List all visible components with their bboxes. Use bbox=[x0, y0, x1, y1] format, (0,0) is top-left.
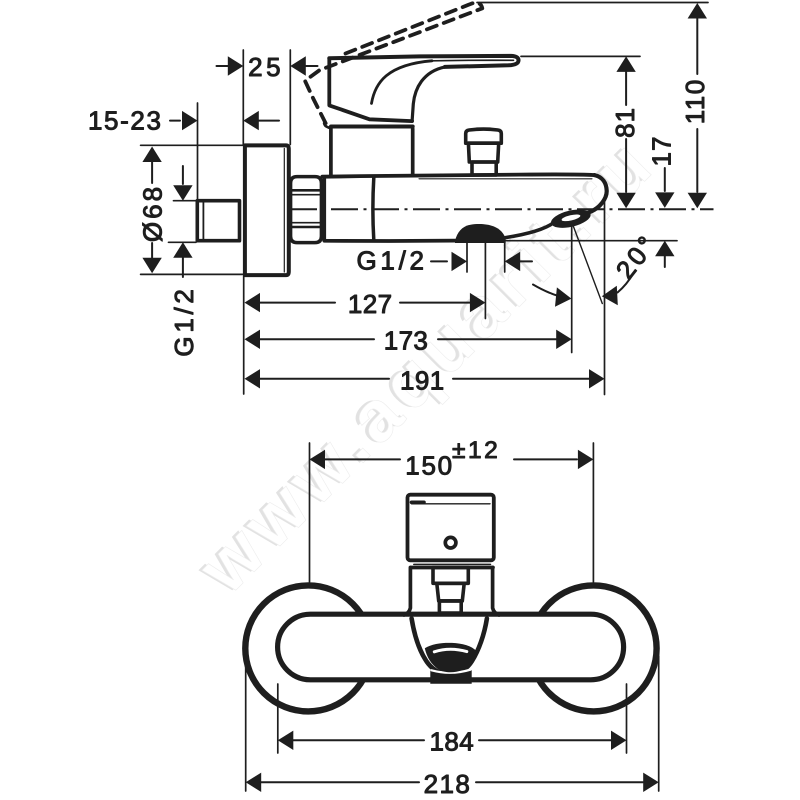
191 extension bbox=[604, 200, 606, 395]
spout mouth (filled) bbox=[425, 643, 477, 672]
G1/2 nipple stubs bbox=[174, 200, 197, 202]
nut groove lines bbox=[292, 189, 321, 192]
deck thin shadow line bbox=[419, 178, 592, 180]
extension line: escutcheon front upper bbox=[289, 50, 291, 145]
svg-text:150: 150 bbox=[405, 451, 453, 481]
dim 184 bbox=[278, 731, 294, 750]
svg-text:G1/2: G1/2 bbox=[357, 246, 428, 276]
Ø68 extension lines bbox=[141, 144, 243, 146]
spout nose outer curve bbox=[589, 175, 607, 212]
handle grip right edge / lever under-curve bbox=[412, 67, 445, 121]
svg-text:81: 81 bbox=[610, 107, 640, 138]
union nut with grooves bbox=[291, 177, 322, 243]
handle front bbox=[408, 495, 494, 561]
spout deck top line bbox=[322, 174, 594, 176]
svg-text:184: 184 bbox=[430, 727, 475, 757]
mouth highlight bbox=[434, 649, 467, 652]
svg-text:191: 191 bbox=[400, 365, 445, 395]
Ø68 dimension line + arrows bbox=[142, 147, 161, 163]
left escutcheon circle bbox=[245, 585, 371, 711]
svg-text:127: 127 bbox=[348, 289, 393, 319]
spout underside after dome bbox=[506, 223, 554, 238]
svg-text:15-23: 15-23 bbox=[88, 105, 163, 135]
G1/2 outlet extension lines bbox=[466, 243, 468, 272]
svg-text:173: 173 bbox=[384, 325, 429, 355]
body/spout seam bbox=[371, 178, 375, 241]
spout bottom edge bbox=[324, 239, 455, 243]
svg-text:G1/2: G1/2 bbox=[169, 285, 199, 356]
svg-text:Ø68: Ø68 bbox=[138, 184, 168, 242]
svg-text:218: 218 bbox=[424, 769, 472, 799]
diverter knob (side view) bbox=[466, 129, 502, 143]
aerator ring (filled ellipse with white core) bbox=[549, 206, 592, 231]
dim 25 arrows bbox=[228, 56, 244, 75]
base/mouth separator highlight bbox=[432, 670, 471, 673]
G1/2 left arrows bbox=[182, 166, 184, 184]
extension line: nipple end bbox=[197, 103, 199, 200]
raised handle (dashed alternate position) bbox=[305, 3, 482, 124]
dim 173 bbox=[245, 330, 261, 349]
right escutcheon circle bbox=[531, 585, 657, 711]
dim 218 extension lines bbox=[245, 656, 247, 791]
nipple thread relief line bbox=[202, 202, 204, 241]
valve body upper (cartridge housing) bbox=[331, 129, 413, 176]
handle lever top edge and tip bbox=[329, 56, 518, 67]
dim 81 line + arrows bbox=[616, 56, 635, 72]
svg-text:20°: 20° bbox=[610, 228, 663, 285]
dim 17: extension line at spout underside level bbox=[506, 240, 677, 242]
centerline (dash-dot axis) bbox=[290, 208, 714, 210]
svg-text:±12: ±12 bbox=[452, 437, 500, 464]
body pill bbox=[278, 614, 624, 680]
cartridge stack front bbox=[433, 568, 468, 584]
watermark bbox=[180, 120, 671, 611]
dim 110: top extension line bbox=[477, 2, 708, 4]
dim 150+-12 extension lines bbox=[309, 443, 311, 582]
cap band under handle bbox=[331, 125, 413, 129]
20 degree slant line bbox=[573, 226, 602, 303]
extension line: wall plane upper bbox=[242, 50, 244, 145]
dim 127 bbox=[245, 293, 261, 312]
escutcheon inner edge line bbox=[283, 149, 285, 273]
20 degree reference vertical (173 extension) bbox=[571, 226, 573, 353]
handle screw hole bbox=[445, 537, 456, 548]
wall extension lower bbox=[243, 276, 245, 394]
wall plug / threaded nipple G1/2 bbox=[197, 201, 239, 241]
valve body lower bbox=[322, 178, 326, 240]
svg-text:110: 110 bbox=[680, 78, 710, 124]
sleeve under handle bbox=[414, 563, 491, 565]
dim 150+-12 bbox=[310, 450, 326, 469]
lever inner thin line bbox=[432, 59, 514, 62]
aerator base block (filled) bbox=[430, 670, 471, 684]
escutcheon (wall rosette, side) bbox=[245, 145, 289, 275]
cap left curl bbox=[324, 123, 331, 128]
dim 110 line + arrows bbox=[688, 3, 707, 19]
dim 191 bbox=[245, 369, 261, 388]
spout front U-shape bbox=[412, 619, 487, 674]
handle inner swoosh bbox=[372, 61, 433, 104]
dim 218 bbox=[246, 773, 262, 792]
20 degree arc arrows bbox=[533, 285, 566, 298]
handle grip outline bbox=[329, 58, 412, 121]
svg-text:25: 25 bbox=[248, 52, 284, 82]
bottom outlet dome (filled) bbox=[455, 224, 506, 243]
dim 184 extension lines bbox=[277, 684, 279, 753]
dim 15-23 arrows bbox=[170, 120, 180, 122]
dim 81: extension from handle top bbox=[521, 55, 640, 57]
svg-text:17: 17 bbox=[647, 136, 677, 167]
